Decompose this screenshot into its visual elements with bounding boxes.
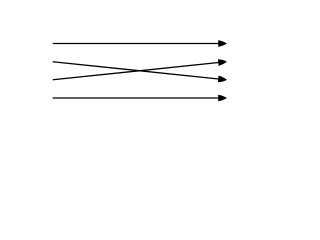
arrow 4 (bottom horizontal) <box>53 95 227 102</box>
arrow 2 (crossing, down-slant) <box>53 62 228 83</box>
arrow 1 (top horizontal) <box>53 40 227 47</box>
arrow 3 (crossing, up-slant) <box>53 58 228 79</box>
